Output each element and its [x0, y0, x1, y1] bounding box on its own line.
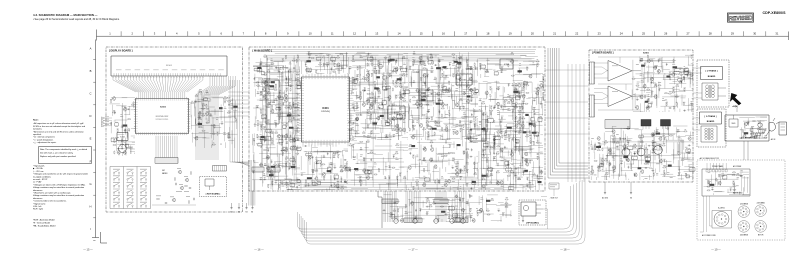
svg-text:30: 30: [753, 32, 756, 36]
revision pointer arrow: [730, 93, 741, 105]
svg-text:50 WV or less are not indicate: 50 WV or less are not indicated except f…: [33, 125, 85, 128]
svg-text:28: 28: [709, 32, 712, 36]
svg-text:AC IN: AC IN: [771, 138, 776, 141]
ceramic resonator X501 cluster: [190, 89, 210, 128]
svg-text:D: D: [90, 114, 92, 118]
sum out arrow note: [541, 197, 558, 230]
svg-text:— 16 —: — 16 —: [254, 248, 264, 252]
svg-text:▶ : CD DA: ▶ : CD DA: [33, 167, 43, 170]
voltage selector schematic: [702, 163, 750, 196]
svg-text:22: 22: [575, 32, 578, 36]
motor connector plugs CN201-CN205: [394, 216, 466, 223]
selector wires to cord: [700, 196, 717, 237]
svg-text:19: 19: [509, 32, 512, 36]
wires power board to trans boards: [693, 68, 702, 130]
svg-text:17: 17: [464, 32, 467, 36]
display pin fan wires right group: [196, 76, 235, 160]
power board upper-right circuitry: [632, 55, 694, 112]
display board bottom components: [152, 196, 196, 206]
svg-text:•EA : Saudi Arabia Model: •EA : Saudi Arabia Model: [33, 225, 56, 228]
svg-text:[ HP BOARD ]: [ HP BOARD ]: [526, 221, 539, 224]
power board top wires: [598, 57, 690, 110]
wire bus display to main board: [228, 92, 249, 116]
AC power plug: [766, 118, 779, 141]
svg-text:31: 31: [775, 32, 778, 36]
svg-text:• See page 26 for Semiconducto: • See page 26 for Semiconductor Lead Lay…: [33, 18, 120, 21]
AC board components: [739, 117, 767, 139]
svg-text:25: 25: [642, 32, 645, 36]
wire bus main board to power board: [545, 48, 588, 178]
svg-text:▷ : CD Line: ▷ : CD Line: [33, 170, 44, 173]
digital servo processor IC201: [290, 73, 360, 147]
fold corner mark: [101, 232, 108, 243]
svg-text:14: 14: [398, 32, 401, 36]
svg-text:• Voltages are taken with a V: • Voltages are taken with a VOM (input i…: [33, 183, 86, 186]
safety note box: [39, 147, 92, 164]
op-amp IC302: [470, 129, 486, 141]
main board circuitry below IC201: [300, 144, 350, 190]
svg-text:( ) : PLAY: ( ) : PLAY: [33, 181, 42, 184]
main board circuitry above IC201: [302, 51, 348, 74]
filter capacitors C810 C811 C812: [622, 143, 662, 156]
svg-text:no-signal conditions.: no-signal conditions.: [33, 175, 52, 178]
AC board power switch S901: [729, 115, 738, 127]
svg-text:• Voltages and waveforms are: • Voltages and waveforms are dc with res…: [33, 173, 88, 176]
svg-text:REVISED: REVISED: [729, 15, 753, 22]
svg-text:24: 24: [620, 32, 623, 36]
svg-text:IC501: IC501: [160, 107, 167, 109]
top ruler scale 1-31: [97, 30, 789, 41]
svg-text:tolerances.: tolerances.: [33, 189, 43, 192]
signal path notes: [33, 165, 88, 211]
AC board outline: [725, 115, 769, 141]
svg-text:[ G TRANS ]: [ G TRANS ]: [705, 115, 717, 118]
notes text column: [33, 119, 85, 145]
display driver transistors Q502-Q504: [162, 168, 192, 192]
main board circuitry right top (sparse): [478, 52, 543, 78]
svg-text:IC201: IC201: [322, 107, 329, 110]
svg-text:Voltage variations may be note: Voltage variations may be noted due to n…: [33, 194, 84, 197]
display board right components: [191, 96, 237, 148]
main board circuitry mid-right lower: [408, 140, 479, 191]
headphone jack J901: [521, 202, 543, 222]
svg-text:Voltage variations may be note: Voltage variations may be noted due to n…: [33, 186, 84, 189]
transistor Q501 (metal can): [119, 145, 133, 157]
svg-text:• All capacitors are in μF un: • All capacitors are in μF unless otherw…: [33, 122, 84, 125]
power board lower circuitry: [590, 126, 695, 180]
power bus junction note: [549, 183, 559, 196]
main board left edge connectors (hatched): [252, 167, 280, 172]
svg-text:IC801: IC801: [643, 53, 650, 55]
main board circuitry upper-left cluster: [252, 55, 301, 190]
svg-text:A: A: [90, 46, 92, 50]
svg-text:H: H: [90, 205, 92, 209]
svg-text:M37471M4-613SP: M37471M4-613SP: [156, 116, 169, 118]
main board circuitry right cluster: [478, 80, 544, 190]
G trans board (dashed): [697, 109, 726, 147]
svg-text:27: 27: [687, 32, 690, 36]
svg-text:(SERVO) [ MAIN BOARD ]: (SERVO) [ MAIN BOARD ]: [542, 74, 545, 101]
reset IC502: [117, 133, 128, 143]
svg-text:4-3. SCHEMATIC DIAGRAM — MAIN: 4-3. SCHEMATIC DIAGRAM — MAIN SECTION —: [33, 13, 98, 17]
RF amplifier IC101: [388, 105, 405, 121]
svg-text:→ SUM OUT: → SUM OUT: [549, 198, 558, 200]
svg-text:26: 26: [664, 32, 667, 36]
main board bottom bus wires (wrap): [298, 179, 586, 245]
svg-text:RCH : right: RCH : right: [33, 208, 43, 211]
fluorescent display tube FL501: [111, 56, 227, 76]
connector pin views (4 circles): [738, 202, 766, 237]
wire bus display board bottom: [249, 160, 255, 206]
main board bottom extension circuitry: [383, 194, 513, 222]
svg-text:20: 20: [531, 32, 534, 36]
svg-text:•E/2E : Australian Model: •E/2E : Australian Model: [33, 219, 55, 222]
svg-text:Replace only with part number: Replace only with part number specified.: [40, 155, 76, 158]
IC501 bottom wires to CN501: [156, 136, 177, 158]
svg-text:BOARD: BOARD: [708, 75, 716, 78]
page title: [33, 13, 120, 21]
svg-text:specified.: specified.: [33, 134, 42, 136]
svg-text:18: 18: [486, 32, 489, 36]
svg-text:• Circled numbers refer to wa: • Circled numbers refer to waveforms.: [33, 200, 67, 203]
svg-text:• Waveforms are taken with a: • Waveforms are taken with a oscilloscop…: [33, 192, 71, 195]
svg-text:G: G: [89, 182, 91, 186]
main board vertical label: [542, 74, 545, 101]
svg-text:[ DISPLAY BOARD ]: [ DISPLAY BOARD ]: [109, 50, 133, 53]
main board circuitry mid-right cluster: [408, 51, 478, 140]
driver IC504: [265, 80, 281, 124]
svg-text:Q501: Q501: [129, 147, 133, 149]
display board left components: [110, 97, 136, 155]
power amplifier triangle lower: [594, 86, 641, 107]
svg-text:B: B: [90, 69, 92, 73]
svg-text:• △ : adjustment for repair.: • △ : adjustment for repair.: [33, 141, 57, 144]
display board right vertical wires: [230, 80, 249, 166]
connector CN501 (hatched): [155, 158, 178, 164]
power board ground returns: [602, 182, 633, 200]
svg-text:23: 23: [598, 32, 601, 36]
display board ground symbols: [230, 203, 248, 214]
svg-text:+E(M): +E(M): [732, 106, 738, 108]
svg-text:• □ : panel designation.: • □ : panel designation.: [33, 138, 54, 141]
svg-text:12: 12: [353, 32, 356, 36]
wires AC board to selector box: [744, 141, 748, 160]
svg-text:C: C: [90, 92, 92, 96]
svg-text:10: 10: [309, 32, 312, 36]
svg-text:Note:: Note:: [33, 119, 39, 122]
main board circuitry left-middle cluster: [348, 52, 410, 140]
svg-text:SYSTEM CONTROL: SYSTEM CONTROL: [156, 119, 169, 121]
regulator IC205: [500, 59, 513, 69]
svg-text:• Ω : internal component.: • Ω : internal component.: [33, 136, 55, 139]
voltage selector connector CN901 (bottom view): [712, 207, 732, 229]
svg-text:15: 15: [420, 32, 423, 36]
main board boundary step: [378, 191, 382, 228]
svg-text:BOARD: BOARD: [707, 120, 715, 123]
motor driver IC202: [419, 90, 433, 101]
svg-text:•E : German Model: •E : German Model: [33, 223, 50, 225]
page numbers: [83, 248, 721, 252]
vertical wires left of power board: [568, 64, 584, 182]
power connector CN803 (hatched): [605, 120, 630, 129]
svg-text:11: 11: [331, 32, 334, 36]
U trans board (dashed): [697, 60, 729, 107]
power board left edge connectors: [590, 62, 595, 117]
ribbon connector wires group 2: [404, 191, 422, 223]
destination model notes: [33, 219, 56, 228]
svg-text:IC301: IC301: [461, 80, 466, 82]
svg-text:[ U TRANS ]: [ U TRANS ]: [706, 70, 718, 73]
svg-text:MOTOR: MOTOR: [758, 234, 764, 236]
svg-text:[ MAIN BOARD ]: [ MAIN BOARD ]: [253, 50, 272, 53]
display board left signal arrows: [102, 116, 113, 127]
svg-text:[ KEY BOARD ]: [ KEY BOARD ]: [206, 193, 221, 196]
key matrix switches S501-S518: [110, 167, 151, 209]
headphone board outline: [519, 200, 546, 225]
svg-text:CDP-XE800/S: CDP-XE800/S: [763, 11, 787, 15]
main board long bus wires: [257, 50, 536, 190]
display board SG ground stub: [251, 191, 254, 214]
svg-text:— 17 —: — 17 —: [408, 248, 418, 252]
svg-text:— 18 —: — 18 —: [560, 248, 570, 252]
voltage selector switch part: [779, 122, 787, 135]
left ruler scale A-I: [89, 40, 99, 241]
display board outline: [106, 47, 243, 212]
svg-text:KEY: KEY: [162, 170, 165, 172]
svg-text:• All resistors are in Ω and: • All resistors are in Ω and 1/4 W or le…: [33, 130, 85, 133]
connector CN502 (hatched): [213, 166, 227, 172]
main board outline: [249, 47, 545, 191]
revision annotation +E(M): [732, 106, 738, 112]
ribbon connector wires group 4: [453, 191, 468, 223]
svg-text:FL501: FL501: [166, 65, 173, 67]
svg-text:S901: S901: [732, 123, 736, 125]
svg-text:16: 16: [442, 32, 445, 36]
micro-controller IC501: [134, 97, 190, 135]
svg-text:E: E: [90, 137, 92, 141]
REVISED stamp: [728, 13, 754, 22]
model number CDP-XE800/S: [763, 11, 787, 15]
svg-text:no mark : STOP: no mark : STOP: [33, 179, 48, 181]
voltage regulators IC802 IC803: [641, 120, 671, 130]
ribbon connector wires group 3: [434, 191, 448, 222]
voltage selector detail box (dashed): [697, 157, 785, 240]
power board outline: [589, 50, 693, 182]
remote sensor sub board: [200, 177, 227, 197]
svg-text:[ POWER BOARD ]: [ POWER BOARD ]: [592, 52, 614, 55]
display pin fan wires left group: [112, 76, 203, 92]
IC501 top pin wires: [139, 92, 185, 97]
svg-text:line with mark △ are critical: line with mark △ are critical for safety…: [40, 151, 74, 154]
audio DAC IC301: [456, 73, 472, 87]
svg-text:IC504: IC504: [270, 102, 275, 104]
svg-text:29: 29: [731, 32, 734, 36]
svg-text:— 19 —: — 19 —: [711, 248, 721, 252]
svg-text:IC502: IC502: [120, 137, 125, 139]
svg-text:• Signal name: • Signal name: [33, 203, 46, 205]
svg-text:LCH : left: LCH : left: [33, 205, 42, 208]
svg-text:• Signal path.: • Signal path.: [33, 165, 45, 168]
main board circuitry lower-middle (sparse): [349, 140, 409, 190]
svg-text:21: 21: [553, 32, 556, 36]
svg-text:CXD2545Q: CXD2545Q: [321, 111, 331, 113]
power amplifier triangle upper: [594, 61, 641, 82]
svg-text:tolerances.: tolerances.: [33, 197, 43, 200]
svg-text:tantalums.: tantalums.: [33, 128, 43, 131]
svg-text:Note: The components identi: Note: The components identified by mark …: [40, 148, 87, 151]
svg-text:— 15 —: — 15 —: [83, 248, 93, 252]
svg-text:13: 13: [375, 32, 378, 36]
ribbon connector wires group 1: [382, 191, 398, 222]
